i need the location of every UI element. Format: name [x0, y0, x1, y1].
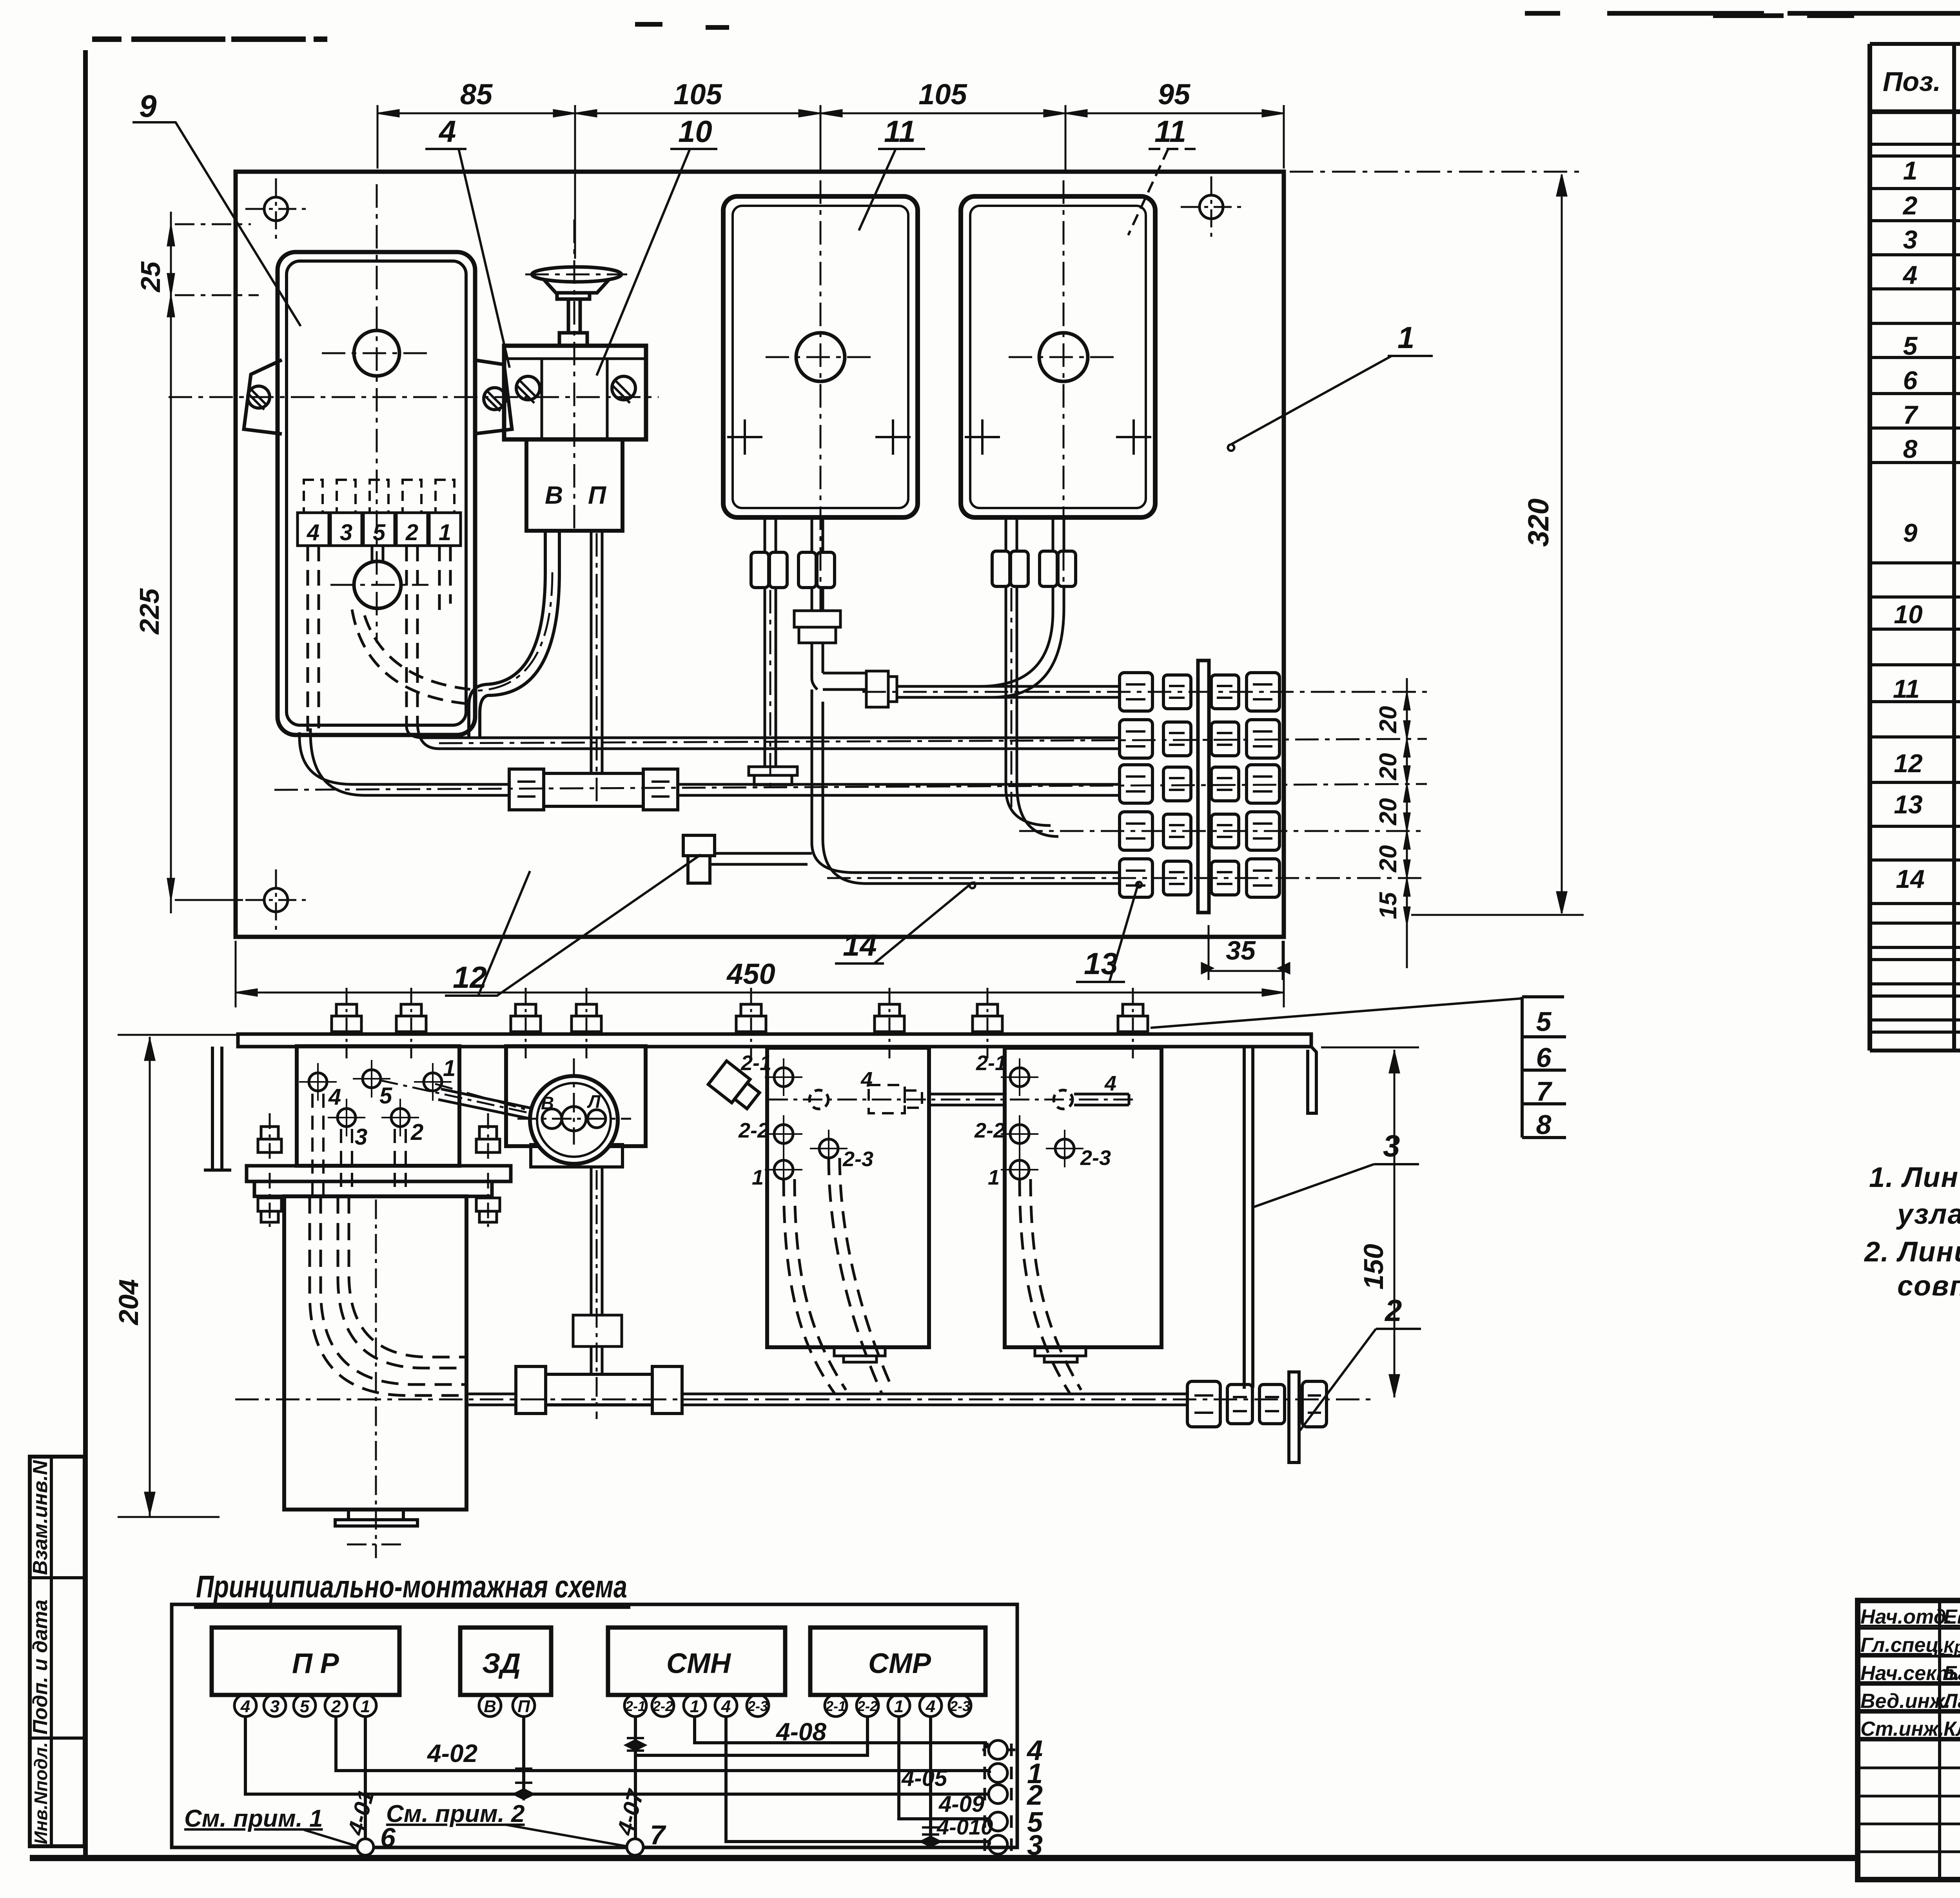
svg-text:4: 4 — [328, 1084, 341, 1110]
СМР right tube curve join R1 — [980, 586, 1064, 697]
flange bolts — [258, 1113, 500, 1231]
device ЗД box — [460, 1628, 551, 1695]
svg-text:2-1: 2-1 — [625, 1698, 646, 1714]
header text — [1883, 66, 1960, 97]
TITLEBLOCK — [1858, 1600, 1960, 1880]
schema outer box — [172, 1604, 1017, 1847]
svg-text:2-2: 2-2 — [857, 1698, 878, 1714]
СМН terminals — [608, 1695, 785, 1717]
valve on ЗД-П line — [514, 1769, 533, 1799]
svg-text:13: 13 — [1894, 790, 1922, 819]
comb fitting rows — [1120, 673, 1279, 897]
svg-text:2-3: 2-3 — [949, 1698, 970, 1714]
svg-text:СМР: СМР — [868, 1648, 931, 1679]
wire 4-02: ПР-2 to terminal 1 — [336, 1717, 989, 1773]
svg-text:320: 320 — [1522, 499, 1555, 547]
svg-text:7: 7 — [1536, 1076, 1553, 1107]
grid verticals — [1867, 44, 1872, 1051]
svg-text:Вед.инж.: Вед.инж. — [1860, 1690, 1951, 1713]
svg-text:2-3: 2-3 — [747, 1698, 768, 1714]
node 6 — [357, 1839, 374, 1855]
svg-text:В: В — [545, 481, 563, 509]
поз numbers — [1893, 156, 1925, 893]
hidden tubes inside ПР (dashed) — [308, 546, 476, 732]
dashed comb above terminals — [304, 480, 454, 513]
svg-text:4: 4 — [438, 114, 456, 149]
СМН right tube: union, branch plug, elbow to R5 — [794, 588, 897, 884]
svg-text:3: 3 — [355, 1124, 367, 1150]
svg-text:5: 5 — [379, 1083, 392, 1109]
svg-text:Взам.инв.N: Взам.инв.N — [29, 1460, 52, 1575]
hidden tubes in ПР body from terminals — [312, 1094, 406, 1196]
runs R1 R2 R3 R5 — [299, 686, 1120, 884]
sidebar box — [30, 1457, 85, 1846]
slanted plug left of СМН — [708, 1061, 762, 1112]
svg-text:2. Линия показана условно, кл: 2. Линия показана условно, клемма „7" уз… — [1864, 1236, 1960, 1268]
svg-text:11: 11 — [884, 114, 916, 149]
svg-text:Принципиально-монтажная схема: Принципиально-монтажная схема — [196, 1569, 627, 1604]
svg-text:4-09: 4-09 — [938, 1791, 984, 1817]
svg-text:5: 5 — [1536, 1006, 1552, 1037]
mounting plate edge-on — [238, 1034, 1311, 1047]
ЗД top view — [506, 1046, 646, 1146]
svg-text:3: 3 — [1027, 1830, 1043, 1861]
top border fragments — [92, 36, 327, 42]
device СМР (pos 11) — [961, 196, 1155, 517]
svg-text:2-2: 2-2 — [652, 1698, 673, 1714]
svg-text:2: 2 — [1026, 1780, 1043, 1811]
svg-text:В: В — [484, 1697, 496, 1716]
svg-text:85: 85 — [460, 78, 493, 111]
svg-text:4-05: 4-05 — [901, 1766, 947, 1791]
svg-text:2: 2 — [1902, 191, 1918, 220]
svg-text:См. прим. 1: См. прим. 1 — [184, 1805, 323, 1832]
svg-text:2: 2 — [1384, 1293, 1402, 1328]
svg-text:6: 6 — [1903, 366, 1918, 395]
СМН hidden curves down — [784, 1158, 893, 1394]
PARTS-TABLE — [1870, 44, 1960, 1051]
device ЗД (pos 10) handwheel — [532, 267, 621, 346]
ПР terminals — [212, 1695, 399, 1717]
svg-text:11: 11 — [1154, 114, 1186, 149]
svg-text:Инв.Nподл.: Инв.Nподл. — [31, 1742, 51, 1844]
device СМН (pos 11) — [723, 196, 918, 517]
svg-text:8: 8 — [1903, 434, 1918, 463]
svg-text:105: 105 — [673, 78, 722, 111]
svg-text:1: 1 — [1903, 156, 1918, 185]
long tube to right — [466, 1394, 1187, 1405]
wire 4-07: СМН-2-1 to node 7 — [634, 1717, 637, 1839]
svg-text:Гл.спец.: Гл.спец. — [1860, 1634, 1944, 1657]
wire: СМН-2-1 valve branch to СМР-2-2 — [635, 1717, 867, 1755]
bracket K-2 left of ПР (view2) — [204, 1047, 231, 1170]
СМР left tube down elbow to R4 — [1006, 586, 1058, 836]
svg-text:4-02: 4-02 — [426, 1739, 477, 1767]
СМН outlet stubs and fittings — [765, 517, 823, 552]
svg-text:225: 225 — [134, 588, 165, 635]
device СМР box — [810, 1628, 985, 1695]
svg-text:ЗД: ЗД — [482, 1648, 521, 1679]
svg-text:12: 12 — [1894, 749, 1923, 778]
svg-text:204: 204 — [113, 1279, 144, 1326]
right terminals — [982, 1740, 1015, 1854]
dim 35 — [1201, 925, 1290, 980]
СМР hidden curve down — [1020, 1179, 1081, 1394]
device СМН box — [608, 1628, 785, 1695]
ЗД terminals — [460, 1695, 551, 1717]
svg-text:5: 5 — [300, 1697, 310, 1716]
svg-text:П Р: П Р — [292, 1648, 339, 1679]
svg-text:1. Линия показана условно, кл: 1. Линия показана условно, клеммо „ 6" — [1869, 1162, 1960, 1193]
dim 320 — [1290, 172, 1584, 915]
svg-text:Клименко: Клименко — [1944, 1718, 1960, 1740]
svg-text:Красташевский: Красташевский — [1944, 1637, 1960, 1657]
svg-text:2-3: 2-3 — [1080, 1146, 1111, 1170]
dim 150 — [1321, 1047, 1419, 1397]
svg-text:95: 95 — [1158, 78, 1191, 111]
svg-text:14: 14 — [843, 928, 877, 962]
bracket K-1 vertical — [1243, 1047, 1246, 1389]
svg-text:СМН: СМН — [666, 1648, 731, 1679]
bracket K-1 left — [244, 360, 282, 434]
svg-text:20: 20 — [1375, 845, 1402, 873]
right small dims 20x4+15 — [1404, 678, 1410, 968]
svg-text:1: 1 — [439, 520, 451, 545]
svg-text:10: 10 — [678, 114, 712, 149]
node 7 — [627, 1839, 643, 1855]
svg-text:Нач.отд.: Нач.отд. — [1860, 1606, 1952, 1628]
svg-text:4: 4 — [926, 1697, 935, 1716]
grid horizontals — [1870, 42, 1960, 46]
svg-text:4: 4 — [240, 1697, 250, 1716]
СМН left tube down to R3 tee — [749, 588, 797, 785]
wire 4-09: СМР-1 to terminal 5 — [899, 1717, 989, 1822]
svg-text:13: 13 — [1084, 946, 1118, 981]
svg-text:2: 2 — [405, 520, 418, 545]
tube В elbow left — [469, 532, 559, 738]
СМР terminals — [810, 1695, 985, 1717]
tube П down — [591, 531, 602, 773]
wire: ЗД-П tap into 4-05 line — [522, 1717, 525, 1794]
svg-text:5: 5 — [373, 520, 386, 545]
svg-text:11: 11 — [1893, 674, 1920, 703]
svg-text:4: 4 — [1104, 1072, 1116, 1095]
ПР terminal boxes 4 3 5 2 1 — [298, 513, 461, 546]
wire labels — [426, 1718, 993, 1839]
svg-text:5: 5 — [1903, 331, 1918, 360]
svg-text:8: 8 — [1536, 1109, 1552, 1140]
ЗД body — [504, 346, 646, 439]
svg-text:1: 1 — [690, 1697, 699, 1716]
svg-text:7: 7 — [1903, 400, 1919, 429]
valve on СМН-2-1 line — [626, 1738, 645, 1751]
svg-text:20: 20 — [1375, 753, 1402, 780]
svg-text:10: 10 — [1894, 600, 1923, 629]
ПР top view body — [297, 1046, 459, 1166]
SCHEMA — [172, 1569, 1043, 1861]
NOTES — [1864, 1120, 1960, 1598]
VIEW2 — [113, 988, 1566, 1558]
mounting hole bottom-left — [245, 869, 307, 931]
wire 4-05: ПР-4 to terminal 2 — [245, 1717, 989, 1794]
svg-text:В: В — [541, 1093, 554, 1113]
ЗД lower block В П — [526, 439, 622, 531]
comb row centerlines — [274, 692, 1427, 878]
svg-text:20: 20 — [1375, 706, 1402, 733]
svg-text:Ст.инж.: Ст.инж. — [1860, 1718, 1944, 1740]
ЗД stem down to tee — [573, 1167, 622, 1374]
svg-text:35: 35 — [1226, 936, 1256, 965]
svg-text:Подп. и дата: Подп. и дата — [29, 1600, 52, 1735]
wire: СМР-4 drop to 4-010 valve — [929, 1717, 932, 1842]
svg-text:2-1: 2-1 — [976, 1051, 1007, 1075]
svg-text:узла совпадает со штуцером 1 п: узла совпадает со штуцером 1 прибора ПР. — [1896, 1199, 1960, 1230]
СМР outlet stubs and fittings — [1006, 517, 1064, 551]
svg-text:2-2: 2-2 — [974, 1119, 1005, 1142]
valve on СМР-4 line — [921, 1827, 940, 1846]
svg-text:9: 9 — [1903, 518, 1918, 547]
ПР terminals top view — [299, 1060, 452, 1136]
comb bar (pos 2) — [1198, 660, 1209, 913]
svg-text:Л: Л — [587, 1091, 601, 1112]
svg-text:Лазоренко: Лазоренко — [1942, 1690, 1960, 1713]
bolts M6 on plate — [332, 988, 1148, 1058]
svg-text:1: 1 — [988, 1166, 1000, 1189]
device ПР box — [212, 1628, 399, 1695]
dim 204 — [118, 1035, 238, 1517]
svg-text:1: 1 — [443, 1056, 456, 1081]
СМН dashed fitting to СМР — [869, 1085, 922, 1113]
svg-text:2-3: 2-3 — [842, 1147, 873, 1171]
svg-text:3: 3 — [340, 520, 352, 545]
mounting hole top-left — [245, 178, 307, 240]
svg-text:15: 15 — [1375, 892, 1402, 919]
svg-text:П: П — [588, 481, 607, 509]
svg-text:2: 2 — [331, 1697, 341, 1716]
svg-text:6: 6 — [1536, 1042, 1552, 1073]
bottom dim 450 — [236, 941, 1284, 1007]
fitting C (pos12) — [683, 835, 812, 883]
svg-text:3: 3 — [1903, 225, 1918, 254]
union tee A on R3 (pos12) — [509, 769, 678, 810]
svg-text:2: 2 — [410, 1120, 423, 1145]
svg-text:П: П — [517, 1697, 530, 1716]
wire 4-01: ПР-1 to node 6 — [364, 1717, 367, 1839]
svg-text:25: 25 — [135, 261, 166, 293]
svg-text:150: 150 — [1358, 1244, 1389, 1290]
svg-text:1: 1 — [1397, 320, 1414, 355]
svg-text:Евтушенко: Евтушенко — [1944, 1606, 1960, 1628]
svg-text:105: 105 — [918, 78, 967, 111]
svg-text:Барщев: Барщев — [1944, 1662, 1960, 1685]
svg-text:Поз.: Поз. — [1883, 66, 1941, 97]
labels 5/6/7/8 stack — [1522, 997, 1566, 1138]
bottom border — [30, 1855, 1858, 1861]
wire 4-010: СМН-4 to terminal 3 — [726, 1717, 989, 1845]
device ПР (pos 9) — [278, 252, 475, 735]
svg-text:2-1: 2-1 — [740, 1051, 771, 1075]
svg-text:См. прим. 2: См. прим. 2 — [386, 1800, 525, 1827]
slanted hidden links to ЗД — [380, 1080, 545, 1116]
VIEW1 — [132, 78, 1584, 1007]
svg-text:4: 4 — [1902, 260, 1918, 289]
svg-text:9: 9 — [139, 89, 157, 123]
svg-text:1: 1 — [894, 1697, 904, 1716]
signature table grid — [1938, 1600, 1941, 1880]
wire 4-08: СМН-1 to terminal 4 — [695, 1717, 987, 1748]
svg-text:2-1: 2-1 — [825, 1698, 846, 1714]
svg-text:3: 3 — [1383, 1129, 1400, 1163]
bulkhead fitting group — [1187, 1372, 1327, 1463]
svg-text:4: 4 — [860, 1068, 873, 1091]
plate P front view — [236, 172, 1284, 937]
svg-text:20: 20 — [1375, 798, 1402, 826]
signature text — [1860, 1606, 1960, 1740]
mounting hole top-right — [1181, 176, 1242, 238]
svg-text:совпадает со штуцером тройн: совпадает со штуцером тройника. — [1897, 1270, 1960, 1302]
svg-text:14: 14 — [1896, 864, 1924, 893]
svg-text:7: 7 — [650, 1820, 666, 1850]
bracket K-2 right — [473, 360, 512, 434]
svg-text:2-2: 2-2 — [738, 1119, 769, 1142]
hidden tubes in ПР tank — [310, 1196, 466, 1395]
left dim chain 25/225 — [167, 212, 259, 913]
left border — [83, 50, 88, 1858]
svg-text:1: 1 — [752, 1166, 764, 1189]
svg-text:4: 4 — [307, 520, 319, 545]
svg-text:4: 4 — [721, 1697, 731, 1716]
svg-text:4-010: 4-010 — [936, 1815, 993, 1839]
СМН top view — [767, 1048, 929, 1347]
dim chain top (85/105/105/95) — [377, 105, 1284, 259]
svg-text:3: 3 — [270, 1697, 279, 1716]
svg-text:4-08: 4-08 — [775, 1718, 827, 1746]
svg-text:450: 450 — [726, 958, 775, 990]
svg-text:1: 1 — [361, 1697, 370, 1716]
СМР top view — [1005, 1048, 1161, 1347]
tee under ЗД — [516, 1366, 682, 1414]
